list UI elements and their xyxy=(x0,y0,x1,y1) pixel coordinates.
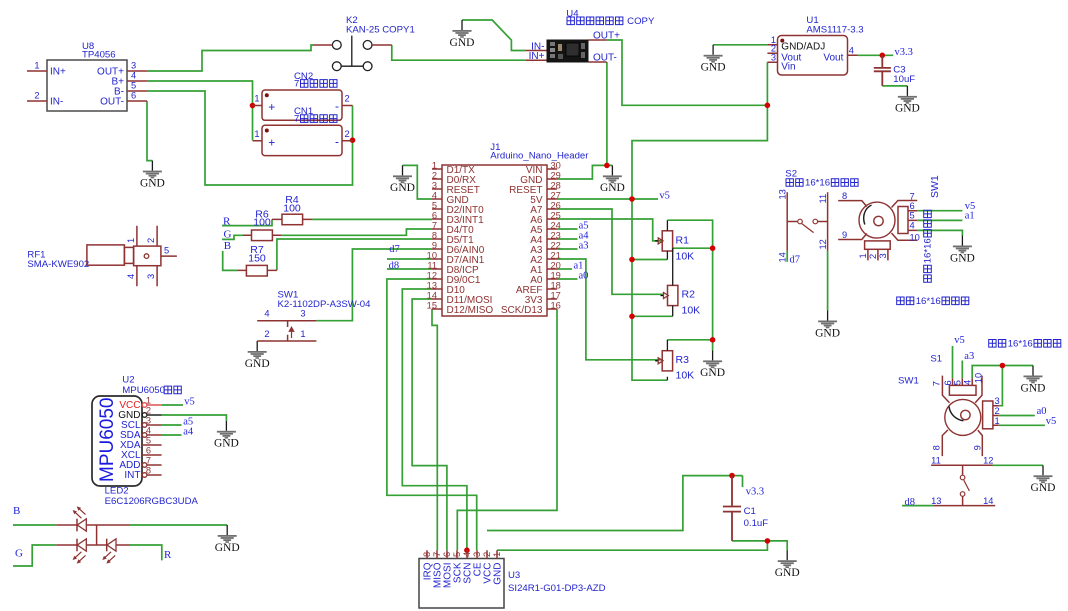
svg-text:MPU6050: MPU6050 xyxy=(97,398,118,483)
svg-text:10K: 10K xyxy=(676,370,695,382)
svg-text:GND: GND xyxy=(815,327,840,339)
svg-text:4: 4 xyxy=(849,45,854,55)
svg-text:S1: S1 xyxy=(930,354,942,365)
svg-text:0.1uF: 0.1uF xyxy=(744,518,769,529)
svg-text:16*16: 16*16 xyxy=(923,238,934,263)
svg-text:3: 3 xyxy=(146,274,156,279)
svg-text:16*16: 16*16 xyxy=(916,296,941,307)
svg-text:2: 2 xyxy=(995,406,1000,416)
svg-text:7: 7 xyxy=(294,78,299,89)
svg-text:a4: a4 xyxy=(183,426,194,437)
svg-text:8: 8 xyxy=(932,445,942,450)
svg-text:2: 2 xyxy=(146,238,156,243)
svg-text:GND/ADJ: GND/ADJ xyxy=(781,42,825,53)
svg-text:2: 2 xyxy=(868,254,878,259)
svg-text:16*16: 16*16 xyxy=(1008,338,1033,349)
svg-text:1: 1 xyxy=(254,94,259,104)
svg-text:8: 8 xyxy=(146,465,151,475)
svg-text:OUT-: OUT- xyxy=(593,53,617,64)
svg-text:d7: d7 xyxy=(790,255,801,266)
svg-text:GND: GND xyxy=(245,358,270,370)
svg-text:7: 7 xyxy=(146,455,151,465)
svg-text:13: 13 xyxy=(931,496,941,506)
svg-text:1: 1 xyxy=(995,416,1000,426)
svg-text:2: 2 xyxy=(345,94,350,104)
svg-text:5: 5 xyxy=(131,81,136,91)
svg-text:12: 12 xyxy=(983,456,993,466)
svg-text:10K: 10K xyxy=(682,305,701,317)
svg-text:R2: R2 xyxy=(682,289,696,301)
svg-text:6: 6 xyxy=(146,445,151,455)
svg-text:SMA-KWE902: SMA-KWE902 xyxy=(27,259,89,270)
svg-text:GND: GND xyxy=(600,182,625,194)
svg-text:GND: GND xyxy=(1021,382,1046,394)
svg-text:GND: GND xyxy=(1031,482,1056,494)
svg-text:2: 2 xyxy=(146,405,151,415)
svg-text:INT: INT xyxy=(124,470,140,481)
svg-text:GND: GND xyxy=(950,252,975,264)
svg-text:d7: d7 xyxy=(389,244,400,255)
svg-text:TP4056: TP4056 xyxy=(82,50,116,61)
svg-text:4: 4 xyxy=(264,308,269,318)
svg-text:12: 12 xyxy=(818,239,828,249)
svg-text:GND: GND xyxy=(450,37,475,49)
svg-text:U3: U3 xyxy=(508,570,520,581)
svg-text:GND: GND xyxy=(390,182,415,194)
svg-text:S2: S2 xyxy=(785,169,797,180)
svg-text:3: 3 xyxy=(131,61,136,71)
svg-text:v5: v5 xyxy=(184,396,195,407)
svg-text:MPU6050: MPU6050 xyxy=(122,385,165,396)
svg-text:E6C1206RGBC3UDA: E6C1206RGBC3UDA xyxy=(105,496,199,507)
svg-text:K2-1102DP-A3SW-04: K2-1102DP-A3SW-04 xyxy=(278,299,372,310)
svg-text:a1: a1 xyxy=(965,211,975,222)
svg-text:5: 5 xyxy=(953,380,963,385)
svg-text:v5: v5 xyxy=(659,190,670,201)
svg-text:GND: GND xyxy=(775,567,800,579)
svg-text:1: 1 xyxy=(34,61,39,71)
svg-text:IN+: IN+ xyxy=(529,51,545,62)
svg-text:7: 7 xyxy=(931,381,941,386)
svg-text:v5: v5 xyxy=(954,335,965,346)
svg-text:11: 11 xyxy=(818,194,828,204)
svg-text:a3: a3 xyxy=(579,240,589,251)
svg-text:C1: C1 xyxy=(744,506,756,517)
svg-text:9: 9 xyxy=(842,230,847,240)
svg-text:d8: d8 xyxy=(905,497,916,508)
svg-text:6: 6 xyxy=(910,201,915,211)
svg-text:OUT-: OUT- xyxy=(100,97,124,108)
svg-text:4: 4 xyxy=(962,380,972,385)
svg-text:1: 1 xyxy=(126,238,136,243)
svg-text:GND: GND xyxy=(140,177,165,189)
svg-text:2: 2 xyxy=(345,129,350,139)
svg-text:10: 10 xyxy=(910,233,920,243)
svg-text:+: + xyxy=(268,135,275,149)
svg-text:a3: a3 xyxy=(964,351,974,362)
svg-text:3: 3 xyxy=(995,396,1000,406)
svg-text:1: 1 xyxy=(254,129,259,139)
svg-text:100: 100 xyxy=(253,217,271,229)
svg-text:SI24R1-G01-DP3-AZD: SI24R1-G01-DP3-AZD xyxy=(508,583,606,594)
svg-text:AMS1117-3.3: AMS1117-3.3 xyxy=(806,24,863,35)
svg-text:3: 3 xyxy=(878,253,888,258)
svg-text:4: 4 xyxy=(910,221,915,231)
svg-text:1: 1 xyxy=(146,395,151,405)
svg-text:10uF: 10uF xyxy=(893,74,915,85)
svg-text:4: 4 xyxy=(146,425,151,435)
svg-text:GND: GND xyxy=(493,563,504,585)
svg-text:1: 1 xyxy=(858,253,868,258)
svg-text:13: 13 xyxy=(778,189,788,199)
svg-text:KAN-25 COPY1: KAN-25 COPY1 xyxy=(346,25,415,36)
svg-text:7: 7 xyxy=(294,114,299,125)
svg-text:IN-: IN- xyxy=(50,97,63,108)
svg-text:G: G xyxy=(224,228,232,240)
svg-text:6: 6 xyxy=(131,91,136,101)
svg-text:IN+: IN+ xyxy=(50,67,66,78)
svg-text:4: 4 xyxy=(131,71,136,81)
svg-text:v3.3: v3.3 xyxy=(895,47,913,58)
svg-text:1: 1 xyxy=(300,329,305,339)
svg-text:U2: U2 xyxy=(122,374,134,385)
svg-text:a0: a0 xyxy=(579,270,589,281)
svg-text:5: 5 xyxy=(164,246,169,256)
svg-text:3: 3 xyxy=(146,415,151,425)
svg-text:100: 100 xyxy=(283,203,301,215)
svg-text:R3: R3 xyxy=(676,354,690,366)
svg-text:14: 14 xyxy=(778,252,788,262)
svg-text:150: 150 xyxy=(248,252,266,264)
svg-text:GND: GND xyxy=(214,438,239,450)
svg-text:5: 5 xyxy=(910,211,915,221)
svg-text:Vout: Vout xyxy=(823,52,843,63)
svg-text:5: 5 xyxy=(146,435,151,445)
svg-text:+: + xyxy=(268,100,275,114)
svg-text:-: - xyxy=(335,99,339,113)
svg-text:16*16: 16*16 xyxy=(805,178,830,189)
svg-text:LED2: LED2 xyxy=(105,485,129,496)
svg-text:R: R xyxy=(164,549,172,561)
svg-text:GND: GND xyxy=(700,367,725,379)
svg-text:Vin: Vin xyxy=(781,62,795,73)
svg-text:3: 3 xyxy=(300,308,305,318)
svg-text:COPY: COPY xyxy=(625,16,655,27)
svg-text:11: 11 xyxy=(931,456,941,466)
svg-text:R: R xyxy=(223,216,231,228)
svg-text:GND: GND xyxy=(215,542,240,554)
svg-text:OUT+: OUT+ xyxy=(593,30,620,41)
svg-text:2: 2 xyxy=(34,91,39,101)
svg-text:B: B xyxy=(13,505,20,517)
svg-text:4: 4 xyxy=(126,274,136,279)
svg-text:R1: R1 xyxy=(676,235,690,247)
svg-text:Arduino_Nano_Header: Arduino_Nano_Header xyxy=(490,150,589,161)
svg-text:SW1: SW1 xyxy=(929,175,941,198)
svg-text:10K: 10K xyxy=(676,251,695,263)
svg-text:SCK/D13: SCK/D13 xyxy=(501,305,543,316)
svg-text:D12/MISO: D12/MISO xyxy=(447,305,494,316)
svg-text:8: 8 xyxy=(842,191,847,201)
svg-text:14: 14 xyxy=(983,496,993,506)
svg-text:-: - xyxy=(335,134,339,148)
svg-text:d8: d8 xyxy=(389,260,400,271)
svg-text:GND: GND xyxy=(895,103,920,115)
svg-text:GND: GND xyxy=(701,62,726,74)
svg-text:v3.3: v3.3 xyxy=(746,486,764,497)
svg-text:v5: v5 xyxy=(1046,416,1057,427)
svg-text:6: 6 xyxy=(943,380,953,385)
svg-text:U4: U4 xyxy=(566,9,579,20)
svg-text:10: 10 xyxy=(973,373,983,383)
svg-text:B: B xyxy=(224,240,231,252)
svg-text:SW1: SW1 xyxy=(898,376,919,387)
svg-text:2: 2 xyxy=(264,329,269,339)
svg-text:9: 9 xyxy=(973,445,983,450)
svg-text:3: 3 xyxy=(771,52,776,62)
svg-text:G: G xyxy=(15,548,23,560)
